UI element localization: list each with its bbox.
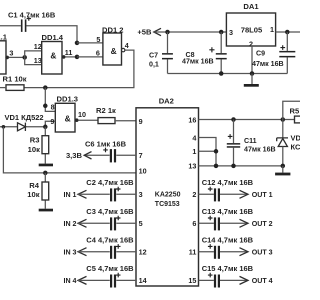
- input row IN1 / capacitor C2: [63, 178, 136, 201]
- input row IN2 / capacitor C3: [63, 207, 136, 230]
- svg-text:DA1: DA1: [243, 2, 259, 11]
- svg-text:R3: R3: [30, 136, 40, 145]
- wire up right: [283, 101, 300, 119]
- capacitor C1: [21, 19, 27, 32]
- svg-text:12: 12: [139, 248, 147, 257]
- svg-text:4: 4: [125, 41, 129, 50]
- capacitor C6 net (pin 7): [84, 154, 136, 156]
- node R1/feedback: [43, 85, 48, 90]
- svg-text:+5В: +5В: [137, 28, 152, 37]
- svg-text:9: 9: [139, 117, 143, 126]
- svg-text:C14 4,7мк 16В: C14 4,7мк 16В: [202, 236, 254, 245]
- svg-text:13: 13: [34, 56, 42, 65]
- svg-text:C1 4,7мк 16В: C1 4,7мк 16В: [8, 10, 56, 19]
- svg-text:10: 10: [139, 166, 147, 175]
- svg-text:10: 10: [78, 110, 86, 119]
- svg-text:47мк 16В: 47мк 16В: [252, 60, 284, 68]
- svg-text:KA2250: KA2250: [155, 191, 181, 198]
- svg-text:TC9153: TC9153: [155, 201, 180, 208]
- svg-text:15: 15: [188, 276, 196, 285]
- svg-text:47мк 16В: 47мк 16В: [244, 146, 276, 154]
- capacitor C9: [286, 32, 288, 74]
- wire pin 5: [77, 42, 103, 44]
- svg-text:R1 10к: R1 10к: [3, 75, 27, 84]
- wire pin 9: [45, 121, 55, 127]
- wire pin 11: [65, 56, 77, 58]
- svg-text:DD1.3: DD1.3: [57, 95, 79, 104]
- svg-text:5: 5: [139, 219, 143, 228]
- svg-text:VD1 КД522: VD1 КД522: [5, 113, 44, 122]
- input row IN4 / capacitor C5: [63, 264, 136, 287]
- ground: [39, 164, 53, 167]
- svg-text:16: 16: [188, 115, 196, 124]
- svg-text:R5: R5: [290, 107, 300, 116]
- svg-text:&: &: [65, 113, 71, 123]
- IC DA2: [136, 108, 199, 286]
- wire pin2 to ground: [251, 46, 253, 74]
- ground: [282, 166, 284, 173]
- node 3,3В: [84, 152, 91, 159]
- svg-text:4: 4: [192, 133, 196, 142]
- svg-text:9: 9: [50, 117, 54, 126]
- svg-text:&: &: [111, 46, 117, 56]
- svg-text:1: 1: [192, 147, 196, 156]
- svg-text:11: 11: [189, 248, 197, 257]
- svg-text:2: 2: [192, 190, 196, 199]
- wire pin 6: [77, 56, 103, 58]
- node junction pins 12/13: [22, 55, 27, 60]
- svg-text:14: 14: [139, 276, 147, 285]
- wire vertical from C1 to gate inputs: [75, 41, 80, 46]
- wire top C1 net: [0, 26, 77, 43]
- diode VD1: [0, 126, 45, 128]
- svg-text:IN 1: IN 1: [63, 191, 76, 199]
- gate DD1.1 (cut off at left edge): [0, 41, 6, 74]
- input row IN3 / capacitor C4: [63, 236, 136, 259]
- svg-text:C6 1мк 16В: C6 1мк 16В: [85, 139, 127, 148]
- svg-text:5: 5: [96, 35, 100, 44]
- svg-text:12: 12: [34, 42, 42, 51]
- svg-text:8: 8: [51, 102, 55, 111]
- svg-text:13: 13: [188, 162, 196, 171]
- wire to pin 13: [25, 57, 42, 64]
- svg-text:C11: C11: [244, 137, 257, 145]
- wire pin13 net: [199, 165, 283, 167]
- wire down to DD1.3 inputs: [45, 88, 55, 112]
- gate DD1.3: [55, 103, 75, 132]
- svg-text:DD1.4: DD1.4: [42, 33, 64, 42]
- ground: [251, 74, 253, 85]
- svg-text:6: 6: [96, 48, 100, 57]
- svg-text:3,3В: 3,3В: [66, 151, 83, 160]
- svg-text:C15 4,7мк 16В: C15 4,7мк 16В: [202, 264, 254, 273]
- svg-text:3: 3: [229, 28, 233, 37]
- svg-text:C12 4,7мк 16В: C12 4,7мк 16В: [202, 178, 254, 187]
- svg-text:IN 2: IN 2: [63, 220, 76, 228]
- ground: [39, 209, 53, 212]
- zener VD2: [282, 120, 284, 139]
- capacitor C8: [220, 32, 222, 74]
- svg-text:C7: C7: [149, 52, 158, 60]
- wire bottom rail: [168, 73, 288, 75]
- wire to pin 12: [25, 51, 42, 58]
- svg-text:7: 7: [139, 151, 143, 160]
- resistor R5 (cut off): [295, 116, 304, 123]
- svg-text:47мк 16В: 47мк 16В: [182, 58, 214, 66]
- svg-text:C13 4,7мк 16В: C13 4,7мк 16В: [202, 207, 254, 216]
- capacitor C7: [167, 32, 169, 74]
- svg-text:C4 4,7мк 16В: C4 4,7мк 16В: [86, 236, 134, 245]
- output row OUT4 / capacitor C15: [199, 264, 273, 287]
- resistor R1: [6, 85, 24, 91]
- svg-text:C5 4,7мк 16В: C5 4,7мк 16В: [86, 264, 134, 273]
- svg-text:VD2: VD2: [291, 133, 301, 142]
- wire DD1.3 out to R2: [78, 119, 98, 121]
- svg-text:10к: 10к: [27, 190, 39, 199]
- svg-text:0,1: 0,1: [149, 60, 159, 68]
- output row OUT3 / capacitor C14: [199, 236, 273, 259]
- svg-text:78L05: 78L05: [241, 26, 263, 35]
- gate DD1.2: [103, 33, 122, 65]
- svg-text:R4: R4: [29, 181, 39, 190]
- svg-text:DA2: DA2: [159, 96, 174, 105]
- svg-text:C9: C9: [256, 50, 265, 58]
- wire +5V rail: [154, 31, 227, 33]
- gate DD1.4: [42, 42, 62, 75]
- svg-text:&: &: [50, 51, 56, 61]
- wire left rail down to pin10 rail: [3, 127, 136, 173]
- svg-text:1: 1: [270, 25, 274, 34]
- svg-text:DD1 2: DD1 2: [102, 25, 124, 34]
- wire pins 4+1 tie: [199, 138, 217, 166]
- svg-text:C3 4,7мк 16В: C3 4,7мк 16В: [86, 207, 134, 216]
- svg-text:OUT 4: OUT 4: [252, 277, 273, 285]
- resistor R4: [44, 173, 46, 209]
- svg-text:IN 4: IN 4: [63, 277, 76, 285]
- wire pin16 net: [199, 119, 295, 121]
- svg-text:6: 6: [192, 219, 196, 228]
- wire pin3: [9, 56, 25, 58]
- regulator DA1: [226, 13, 275, 46]
- svg-text:OUT 2: OUT 2: [252, 220, 273, 228]
- resistor R3: [44, 127, 46, 164]
- capacitor C11: [233, 120, 235, 166]
- svg-text:OUT 1: OUT 1: [252, 191, 273, 199]
- output row OUT2 / capacitor C13: [199, 207, 273, 230]
- wire pin 4 feedback to R1: [24, 50, 134, 88]
- svg-text:3: 3: [139, 190, 143, 199]
- svg-text:IN 3: IN 3: [63, 248, 76, 256]
- svg-text:C2 4,7мк 16В: C2 4,7мк 16В: [86, 178, 134, 187]
- svg-text:КС133: КС133: [291, 143, 301, 152]
- svg-text:OUT 3: OUT 3: [252, 248, 273, 256]
- wire DA1 out: [276, 31, 300, 33]
- svg-text:10к: 10к: [28, 145, 40, 154]
- resistor R2: [98, 118, 115, 124]
- svg-text:DD1.1: DD1.1: [0, 32, 8, 41]
- output row OUT1 / capacitor C12: [199, 178, 273, 201]
- svg-text:11: 11: [65, 48, 73, 57]
- svg-text:R2 1к: R2 1к: [96, 106, 116, 115]
- svg-text:3: 3: [9, 48, 13, 57]
